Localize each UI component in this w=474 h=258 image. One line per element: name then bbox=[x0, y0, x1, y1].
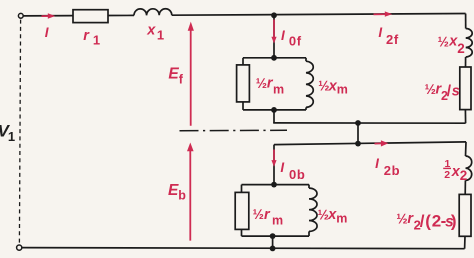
svg-text:½: ½ bbox=[425, 82, 436, 97]
svg-text:½: ½ bbox=[253, 207, 264, 222]
svg-text:2: 2 bbox=[457, 41, 465, 56]
wire parallel bottom bar (backward) bbox=[242, 235, 310, 237]
arrow I bbox=[42, 13, 56, 18]
inductor half-x2 (backward) bbox=[466, 156, 472, 180]
label half-rm (backward) bbox=[253, 207, 284, 228]
node connector top bbox=[355, 120, 361, 126]
arrow I0f bbox=[271, 20, 276, 44]
svg-text:m: m bbox=[272, 214, 283, 228]
resistor half-rm (forward) bbox=[237, 65, 250, 102]
node bottom rail junction bbox=[270, 246, 276, 252]
arrow I0b bbox=[271, 150, 276, 167]
label Ef bbox=[168, 66, 183, 87]
wire bottom rail (forward loop) bbox=[273, 122, 465, 124]
label half-xm (forward) bbox=[318, 78, 348, 96]
svg-text:2b: 2b bbox=[384, 163, 400, 178]
arrow I2b bbox=[375, 140, 389, 146]
wire top rail right bbox=[172, 14, 466, 16]
svg-text:I: I bbox=[281, 28, 285, 43]
resistor half-rm (backward) bbox=[235, 192, 249, 229]
svg-text:1: 1 bbox=[93, 33, 100, 48]
wire right branch top (backward) bbox=[465, 142, 468, 156]
svg-text:s: s bbox=[452, 84, 460, 100]
svg-text:½: ½ bbox=[318, 79, 329, 94]
label x1 bbox=[146, 22, 164, 42]
label I0b bbox=[280, 160, 305, 182]
svg-text:I: I bbox=[45, 25, 49, 40]
inductor x1 bbox=[134, 9, 172, 16]
terminal bottom-left bbox=[17, 245, 22, 250]
label I2b bbox=[375, 156, 400, 178]
label half-x2 (backward) bbox=[443, 158, 467, 183]
svg-text:½: ½ bbox=[256, 76, 267, 91]
node top junction bbox=[271, 12, 277, 18]
svg-text:I: I bbox=[375, 156, 379, 171]
wire r2s bottom lead (forward) bbox=[464, 110, 466, 124]
dashed source line bbox=[19, 20, 20, 245]
svg-text:b: b bbox=[178, 189, 186, 203]
label half-xm (backward) bbox=[318, 207, 348, 225]
arrow Ef bbox=[188, 22, 194, 126]
label half-rm (forward) bbox=[256, 76, 284, 97]
label half-r2/(2-s) bbox=[396, 211, 456, 233]
wire shunt top bbox=[273, 15, 275, 58]
svg-text:): ) bbox=[451, 212, 457, 231]
wire shunt bottom stub (forward) bbox=[273, 110, 275, 123]
wire bottom loop top rail bbox=[274, 142, 466, 145]
label r1 bbox=[83, 28, 100, 48]
svg-text:m: m bbox=[336, 211, 347, 225]
label I0f bbox=[281, 28, 302, 49]
resistor r1 bbox=[73, 10, 108, 23]
arrow I2f bbox=[374, 11, 393, 16]
svg-text:½: ½ bbox=[318, 207, 329, 222]
wire parallel top bar (backward) bbox=[242, 184, 310, 186]
wire shunt top (backward) bbox=[273, 145, 275, 185]
svg-text:2f: 2f bbox=[386, 32, 399, 47]
svg-text:0b: 0b bbox=[289, 167, 305, 182]
svg-text:/: / bbox=[420, 212, 425, 231]
wire bottom rail bbox=[22, 248, 465, 249]
wire rm top lead (backward) bbox=[241, 185, 243, 193]
wire top rail left bbox=[23, 15, 73, 17]
svg-text:1: 1 bbox=[157, 28, 164, 43]
wire rm top lead (forward) bbox=[242, 58, 244, 65]
node parallel top (forward) bbox=[271, 55, 277, 61]
node connector bottom bbox=[355, 141, 361, 147]
svg-text:m: m bbox=[337, 83, 348, 97]
label Eb bbox=[168, 182, 186, 203]
inductor half-xm (forward) bbox=[306, 58, 313, 110]
label V1 bbox=[0, 121, 15, 144]
wire parallel top bar (forward) bbox=[243, 57, 306, 59]
wire between r1 and x1 bbox=[108, 14, 134, 16]
svg-text:(: ( bbox=[425, 212, 431, 231]
wire parallel bottom bar (forward) bbox=[243, 109, 306, 111]
wire right branch top (forward) bbox=[465, 14, 467, 29]
svg-text:m: m bbox=[273, 82, 284, 96]
label half-r2/s bbox=[425, 82, 460, 104]
svg-text:½: ½ bbox=[438, 34, 449, 49]
label half-x2 (forward) bbox=[438, 33, 465, 56]
wire r2 bottom lead (backward) bbox=[464, 236, 466, 248]
svg-text:E: E bbox=[168, 66, 179, 83]
resistor half-r2/(2-s) (backward) bbox=[459, 194, 471, 236]
node parallel bottom (forward) bbox=[271, 107, 277, 113]
svg-text:0f: 0f bbox=[289, 34, 302, 49]
node parallel top (backward) bbox=[271, 182, 277, 188]
svg-text:1: 1 bbox=[8, 129, 15, 144]
wire rm bottom lead (backward) bbox=[241, 229, 243, 236]
svg-text:I: I bbox=[378, 25, 382, 40]
inductor half-x2 (forward) bbox=[466, 29, 473, 58]
inductor half-xm (backward) bbox=[309, 185, 317, 237]
terminal top-left bbox=[18, 13, 23, 18]
svg-text:½: ½ bbox=[396, 211, 407, 226]
wire x2 to r2 (backward) bbox=[464, 180, 466, 194]
wire rm bottom lead (forward) bbox=[242, 102, 244, 110]
arrow Eb bbox=[187, 143, 194, 241]
svg-text:x: x bbox=[146, 22, 156, 38]
wire shunt bottom stub (backward) bbox=[272, 236, 274, 248]
svg-text:2: 2 bbox=[444, 169, 450, 181]
wire connector between loops bbox=[357, 123, 359, 144]
wire x2 to r2s (forward) bbox=[465, 57, 467, 67]
resistor half-r2/s (forward) bbox=[460, 67, 471, 110]
node parallel bottom (backward) bbox=[270, 233, 276, 239]
centerline dash-dot bbox=[180, 129, 288, 131]
label I2f bbox=[378, 25, 398, 47]
svg-text:I: I bbox=[280, 160, 284, 175]
